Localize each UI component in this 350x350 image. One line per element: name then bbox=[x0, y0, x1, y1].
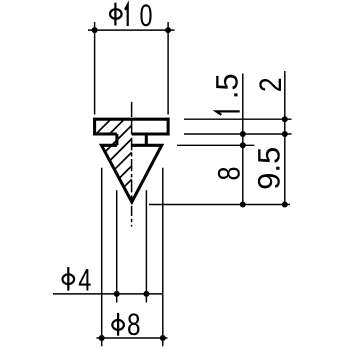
v2 dot at apex bbox=[282, 202, 288, 208]
phi8 extension line left bbox=[101, 168, 103, 346]
rivet head bottom edge right segment (from slot centerline to right) bbox=[132, 132, 170, 135]
label 2 (rotated) bbox=[259, 79, 281, 91]
label 1.5 (rotated) bbox=[216, 111, 239, 114]
hatch C/D (continuous: cone slope through neck into head, ends at slot centerline) bbox=[105, 125, 131, 151]
phi4 extension line right bbox=[145, 190, 147, 302]
v2 dot at head-bottom bbox=[282, 131, 288, 137]
phi4 dim dot left bbox=[114, 291, 120, 297]
v1 dot at head-bottom bbox=[240, 131, 246, 137]
phi10 extension line right bbox=[167, 22, 169, 115]
phi8 dimension line bbox=[97, 337, 168, 339]
phi8 extension line right bbox=[162, 168, 164, 346]
phi10 label: phi symbol bbox=[110, 9, 122, 19]
hatch E1 (cone slope through shoulder gap into neck) bbox=[110, 139, 132, 161]
centerline (vertical chain line, drawn as measured dash segments) bbox=[131, 102, 133, 227]
phi10 dim dot right bbox=[165, 27, 171, 33]
phi4 label: digit bbox=[79, 269, 91, 290]
label 8 (rotated) bbox=[218, 168, 240, 180]
rivet head right edge bbox=[167, 118, 170, 136]
phi10 dim dot left bbox=[92, 27, 98, 33]
left shoulder + cone outline (arrow profile) bbox=[102, 145, 162, 202]
phi10 extension line left bbox=[94, 22, 96, 115]
rivet head top edge bbox=[93, 118, 169, 121]
hatch E2 (cone) bbox=[115, 152, 132, 169]
rivet head bottom edge left segment bbox=[93, 132, 117, 135]
dimension line v2 (2 and 9.5) bbox=[284, 71, 286, 205]
right extension line head-top (y=119.2) bbox=[184, 118, 292, 120]
right extension line apex (y=204.5) bbox=[149, 204, 290, 206]
hatch B (head) bbox=[110, 119, 125, 134]
right extension line cone-top (y=145.3) bbox=[177, 144, 254, 146]
rivet head left edge bbox=[93, 118, 96, 136]
v1 dot at apex bbox=[240, 202, 246, 208]
neck right edge bbox=[145, 134, 148, 145]
v1 dot at cone-top bbox=[240, 142, 246, 148]
v2 dot at head-top bbox=[282, 116, 288, 122]
phi8 label: phi symbol bbox=[112, 320, 124, 330]
phi10 dimension line bbox=[88, 29, 175, 31]
right extension line head-bottom (y=134.0) bbox=[184, 133, 292, 135]
phi8 dim dot left bbox=[99, 335, 105, 341]
hatch G (cone) bbox=[124, 179, 132, 187]
dimension line v1 (1.5 and 8) bbox=[242, 74, 244, 205]
neck left edge bbox=[115, 134, 118, 145]
hatch F (cone) bbox=[119, 166, 131, 178]
phi4 dim dot right bbox=[143, 291, 149, 297]
phi8 dim dot right bbox=[160, 335, 166, 341]
phi4 extension line left bbox=[116, 190, 118, 302]
phi8 label: digit bbox=[128, 313, 139, 335]
phi4 label: phi symbol bbox=[63, 274, 75, 284]
phi4 dimension line bbox=[53, 293, 164, 295]
label 9.5 (rotated) bbox=[258, 148, 280, 188]
phi10 label: digits bbox=[125, 5, 128, 26]
hatch A (head) bbox=[96, 119, 111, 134]
